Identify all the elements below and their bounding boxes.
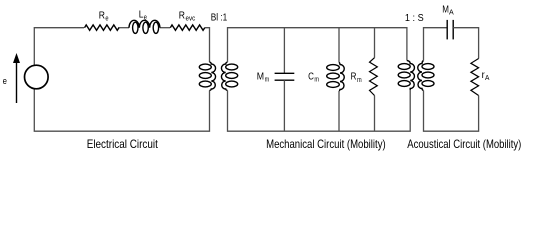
svg-text:C: C <box>308 72 314 83</box>
svg-text:e: e <box>144 15 147 22</box>
label Rm <box>351 72 362 84</box>
resistor rA <box>471 59 479 96</box>
svg-text:1 : S: 1 : S <box>405 13 424 24</box>
label Cm <box>308 72 319 84</box>
label Revc <box>179 10 196 22</box>
svg-text:R: R <box>99 11 105 22</box>
capacitor MA <box>447 20 453 40</box>
svg-text:m: m <box>265 77 270 84</box>
wire Mm branch top <box>283 28 285 74</box>
transformer T2 primary winding <box>398 61 414 91</box>
label MA <box>442 4 454 16</box>
arrow for e <box>13 53 20 103</box>
transformer T1 primary winding <box>199 62 215 91</box>
svg-text:e: e <box>105 16 108 23</box>
svg-text:Acoustical Circuit (Mobility): Acoustical Circuit (Mobility) <box>407 137 521 151</box>
wire Cm branch bottom <box>338 91 340 131</box>
wire electrical top rail <box>34 28 209 66</box>
capacitor Mm <box>275 73 295 80</box>
label Re <box>99 11 109 23</box>
voltage source e <box>25 65 49 89</box>
wire electrical bottom rail <box>34 89 209 131</box>
transformer T2 secondary winding <box>418 61 434 91</box>
resistor Rm <box>370 58 378 96</box>
svg-text:m: m <box>314 77 319 84</box>
wire acoustical top rail left <box>424 28 448 61</box>
svg-text:Mechanical Circuit (Mobility): Mechanical Circuit (Mobility) <box>266 137 386 151</box>
inductor Cm <box>327 63 345 92</box>
wire mechanical bottom rail <box>228 90 411 131</box>
wire acoustical top rail right <box>453 28 478 59</box>
resistor Revc <box>170 25 205 30</box>
wire Rm branch bottom <box>374 96 376 132</box>
svg-text:m: m <box>357 77 362 84</box>
svg-text:Bl :1: Bl :1 <box>211 13 228 24</box>
wire Rm branch top <box>374 28 376 58</box>
inductor Le <box>129 20 160 33</box>
wire mechanical top rail <box>228 28 407 62</box>
svg-text:R: R <box>351 72 357 83</box>
label rA <box>482 70 490 82</box>
svg-text:M: M <box>257 71 264 82</box>
svg-text:evc: evc <box>186 15 196 22</box>
wire Mm branch bottom <box>283 80 285 131</box>
svg-text:A: A <box>485 75 490 82</box>
svg-text:e: e <box>3 76 7 87</box>
transformer T1 secondary winding <box>221 62 237 91</box>
svg-text:M: M <box>442 4 449 15</box>
svg-text:Electrical Circuit: Electrical Circuit <box>87 137 159 151</box>
label Le <box>139 10 147 22</box>
svg-text:R: R <box>179 10 185 21</box>
label Mm <box>257 71 270 83</box>
wire acoustical bottom rail <box>424 91 479 132</box>
svg-text:A: A <box>449 9 454 16</box>
resistor Re <box>85 25 120 30</box>
wire Cm branch top <box>338 28 340 63</box>
